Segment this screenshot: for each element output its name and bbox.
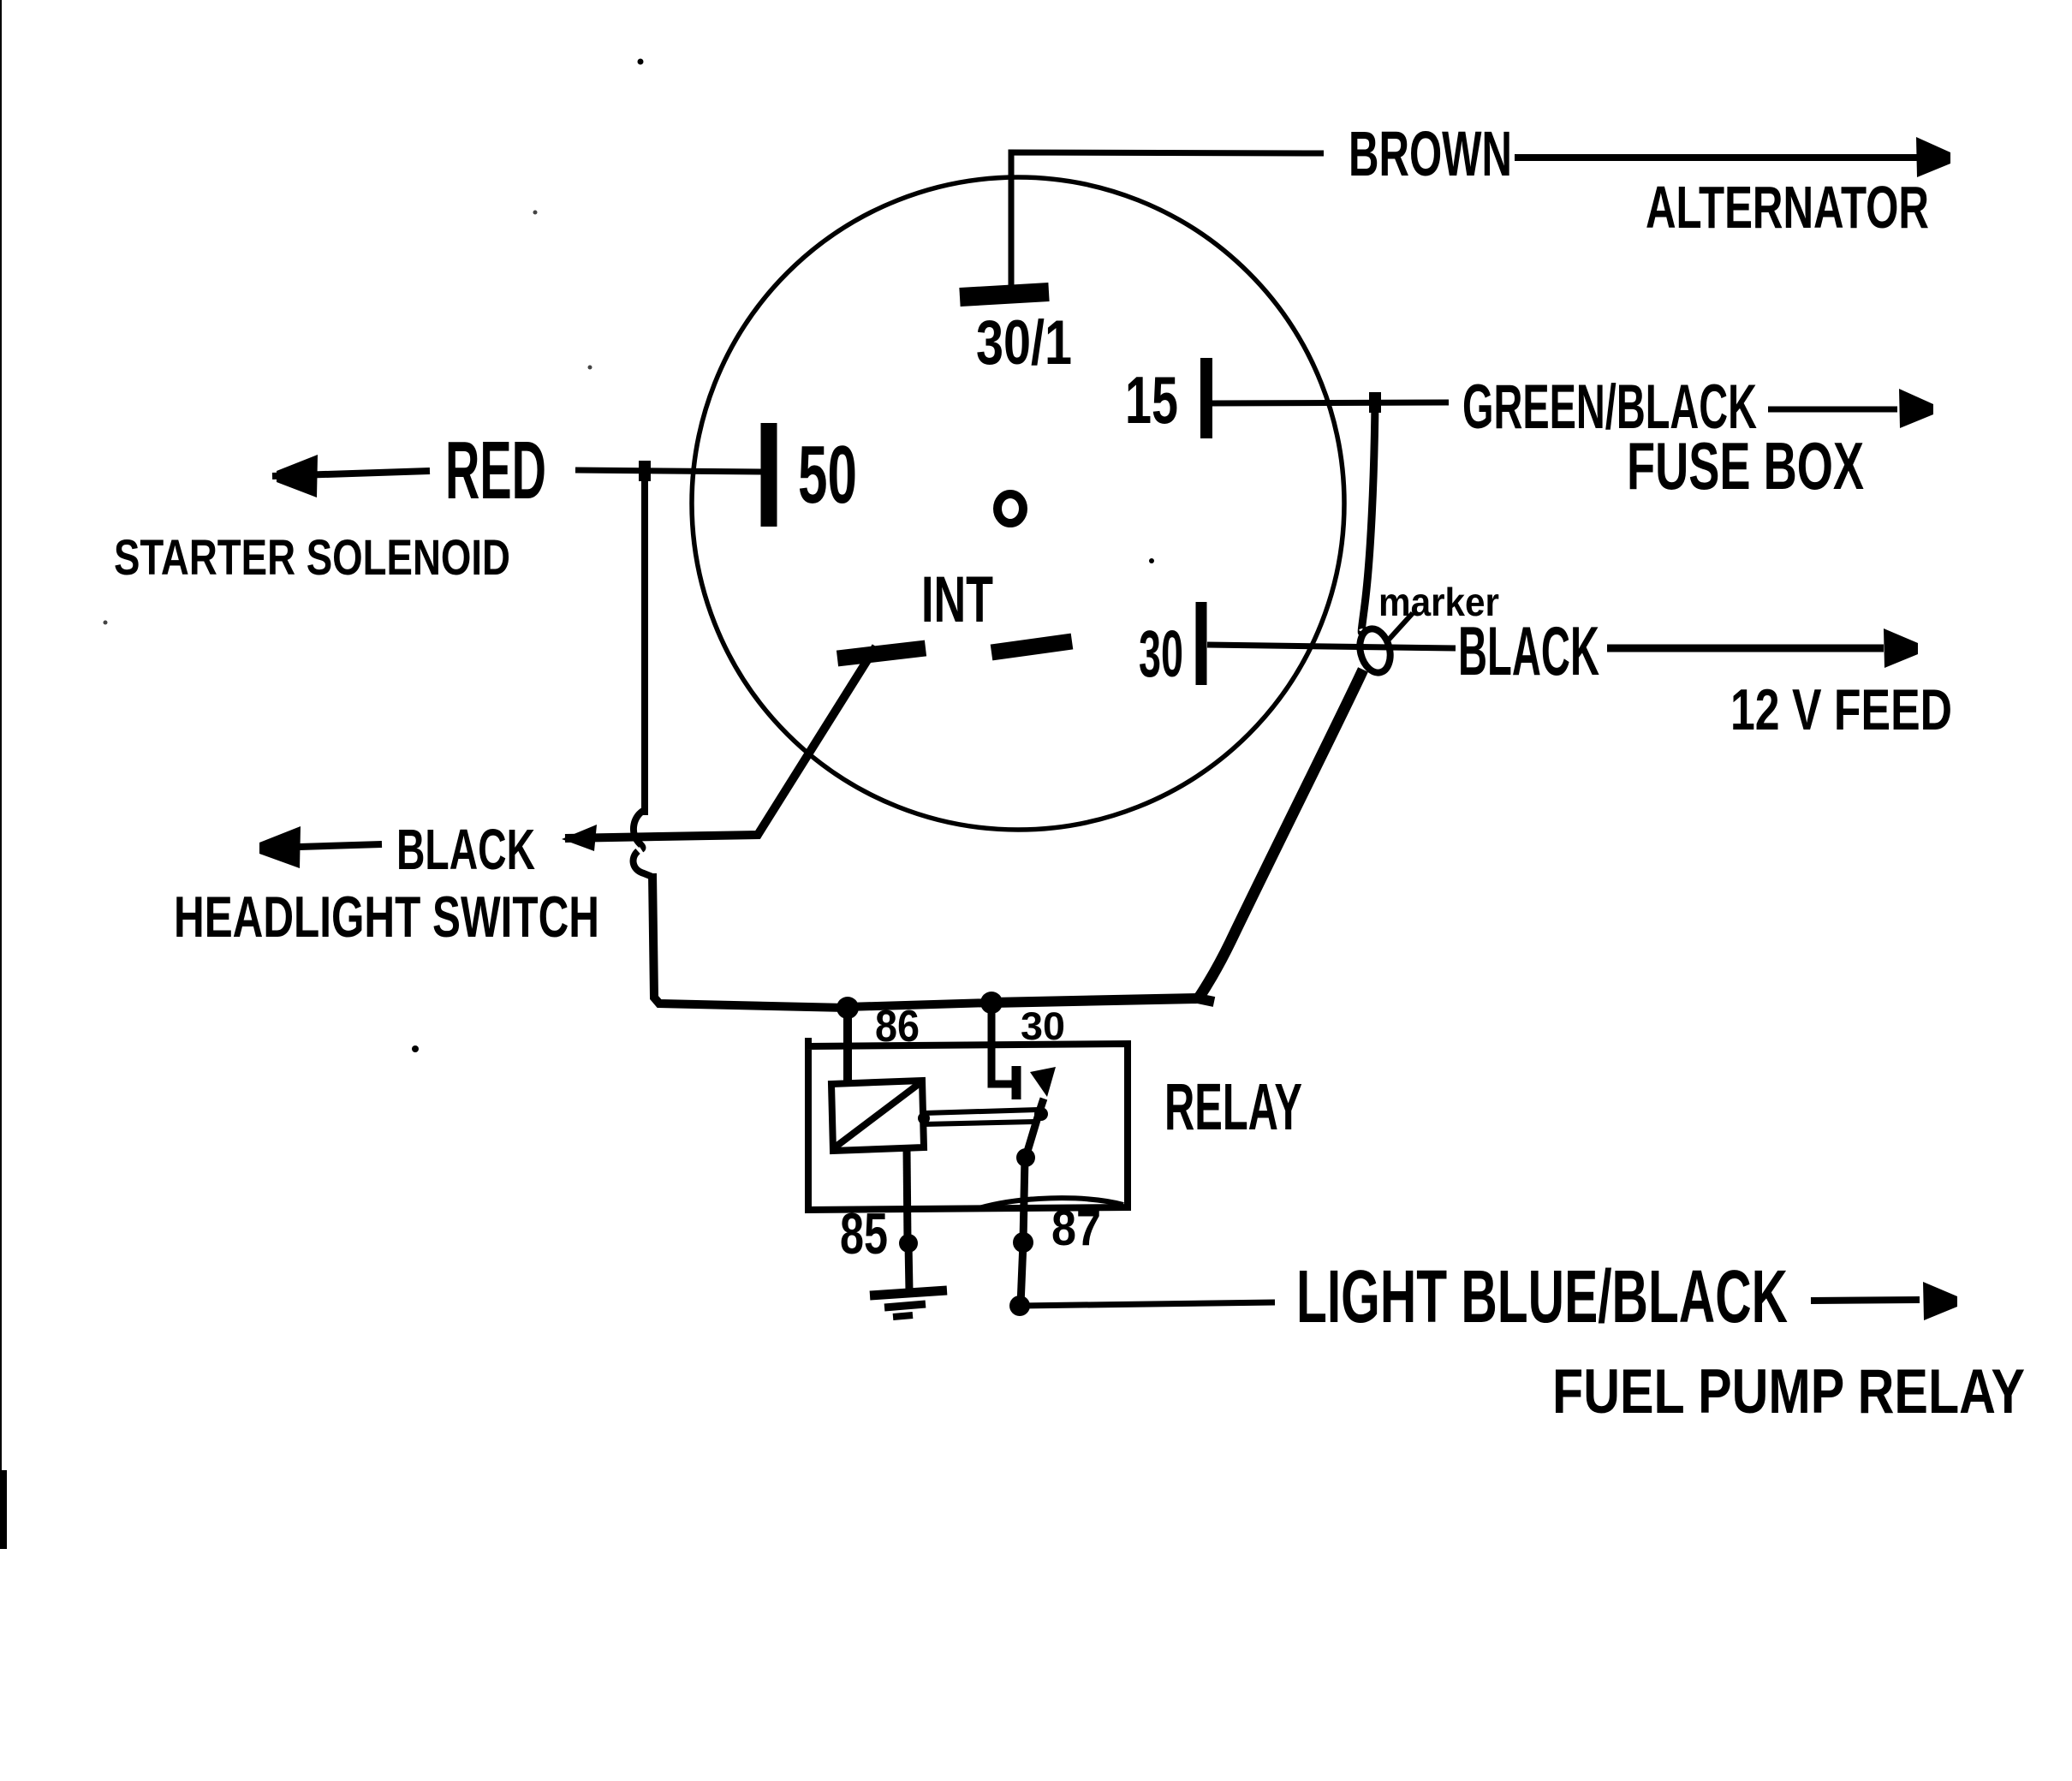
arrow BLACK to headlight switch <box>300 844 382 847</box>
relay box bottom wobble <box>976 1198 1123 1209</box>
svg-text:INT: INT <box>921 563 993 636</box>
speck faint c <box>104 621 108 625</box>
wire terminal 15 to GREEN/BLACK <box>1212 402 1449 403</box>
relay coil box <box>831 1081 924 1151</box>
wire 85 dot to ground <box>908 1243 909 1291</box>
arrow RED to starter solenoid <box>272 471 430 476</box>
svg-text:RED: RED <box>445 425 546 516</box>
svg-text:12 V FEED: 12 V FEED <box>1730 677 1952 742</box>
junction dot 86 <box>837 997 859 1019</box>
svg-text:30: 30 <box>1139 617 1183 691</box>
scan artifact left edge blob <box>0 1470 7 1549</box>
terminal 30/1 bar <box>960 292 1049 297</box>
wire coil to 85 ground <box>907 1149 908 1242</box>
junction tick RED wire <box>639 461 651 481</box>
svg-text:HEADLIGHT SWITCH: HEADLIGHT SWITCH <box>174 885 599 950</box>
svg-text:STARTER SOLENOID: STARTER SOLENOID <box>114 530 510 586</box>
relay pivot dot <box>1016 1148 1035 1167</box>
speck lower left <box>412 1045 419 1052</box>
wire arrow to fuel pump relay <box>1811 1300 1920 1301</box>
wire BLACK arrow to 12V feed <box>1607 645 1884 652</box>
wire 30 dot to diagonal <box>991 998 1214 1003</box>
marker symbol (small oval on wire) <box>1355 626 1395 676</box>
wire 87 corner to LIGHT BLUE/BLACK <box>1020 1302 1275 1306</box>
ground symbol <box>870 1290 947 1296</box>
terminal 50 bar <box>761 423 777 527</box>
wire 30 dot down to contact <box>991 1003 1013 1084</box>
wire from terminal 30/1 up and right to BROWN <box>1011 152 1324 285</box>
svg-text:BROWN: BROWN <box>1349 118 1512 189</box>
terminal 30 bar (right) <box>1196 602 1207 685</box>
svg-text:FUEL PUMP RELAY: FUEL PUMP RELAY <box>1552 1357 2025 1427</box>
svg-text:15: 15 <box>1125 362 1178 438</box>
svg-text:85: 85 <box>840 1201 888 1266</box>
small arrowhead at BLACK label <box>562 825 597 851</box>
wire squiggle hop <box>634 810 652 877</box>
wire terminal 30 to BLACK <box>1207 645 1456 648</box>
scan artifact left edge line <box>0 0 2 1498</box>
terminal INT left bar <box>837 648 926 658</box>
svg-text:BLACK: BLACK <box>1458 613 1599 690</box>
wire vertical to relay corner <box>652 873 847 1008</box>
relay coil diagonal <box>835 1084 919 1147</box>
wire down from 15 junction to marker <box>1361 402 1375 633</box>
wire 86 dot to 30 dot <box>847 1003 991 1007</box>
svg-text:LIGHT BLUE/BLACK: LIGHT BLUE/BLACK <box>1296 1255 1788 1338</box>
junction dot 85 <box>899 1234 918 1253</box>
wire terminal 50 to RED <box>575 470 761 472</box>
speck middle <box>1149 558 1154 563</box>
wire 86 dot down to coil <box>843 1008 852 1084</box>
junction dot 87 <box>1013 1232 1033 1253</box>
relay switch arm <box>1026 1099 1044 1157</box>
label O (switch position) <box>997 494 1023 523</box>
corner dot 87 <box>1009 1296 1030 1316</box>
speck top <box>638 59 644 65</box>
junction dot 30 <box>980 992 1003 1014</box>
relay fixed contact bar <box>1012 1066 1021 1099</box>
svg-text:BLACK: BLACK <box>396 818 535 882</box>
wire pivot down to 87 <box>1023 1158 1025 1242</box>
ignition switch body (circle) <box>692 177 1344 830</box>
armature to arm dot <box>1034 1107 1048 1121</box>
relay box <box>808 1038 1128 1210</box>
svg-text:50: 50 <box>798 429 857 521</box>
svg-text:FUSE BOX: FUSE BOX <box>1627 428 1864 503</box>
junction tick 15 wire <box>1369 392 1381 413</box>
svg-text:RELAY: RELAY <box>1164 1070 1302 1144</box>
wire 87 down to corner <box>1021 1242 1023 1305</box>
armature link lines <box>924 1110 1038 1124</box>
terminal INT right bar <box>991 641 1072 652</box>
thick diagonal wire marker to relay 30 <box>1198 670 1363 999</box>
marker leader line <box>1388 613 1413 640</box>
svg-text:30/1: 30/1 <box>976 308 1072 378</box>
wire BLACK to INT diagonal <box>565 646 876 838</box>
wire BROWN to alternator arrow <box>1515 154 1918 161</box>
relay switch arrowhead <box>1030 1067 1056 1097</box>
wire vertical from RED junction down <box>641 463 648 815</box>
svg-text:ALTERNATOR: ALTERNATOR <box>1646 174 1929 241</box>
wire GREEN/BLACK arrow to fuse box <box>1768 407 1897 413</box>
speck faint b <box>588 366 592 370</box>
terminal 15 bar <box>1200 358 1212 438</box>
speck faint a <box>533 211 538 215</box>
svg-text:87: 87 <box>1051 1200 1101 1256</box>
